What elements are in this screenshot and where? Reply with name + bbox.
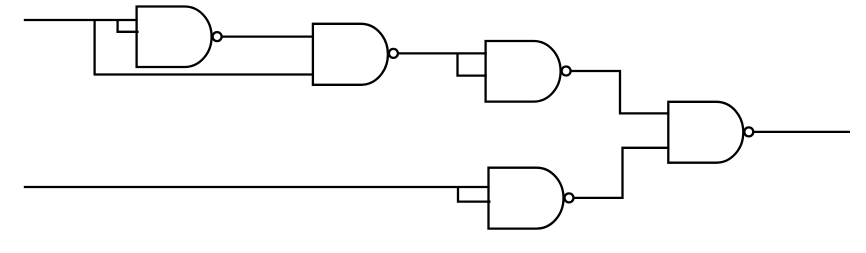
wire jog tying both inputs of U5 xyxy=(458,187,491,202)
wire input B horizontal xyxy=(24,186,490,188)
bubble U3 output xyxy=(562,67,571,76)
wire U4 output xyxy=(753,131,850,133)
bubble U4 output xyxy=(744,127,753,136)
wire U2 output to U3 xyxy=(398,52,487,54)
bubble U2 output xyxy=(389,49,398,58)
nand-gate U3 xyxy=(486,41,561,102)
wire jog tying both inputs of U3 xyxy=(458,53,487,75)
nand-gate U5 xyxy=(489,168,564,229)
wire feedback horizontal to U2 lower input xyxy=(94,73,314,75)
bubble U1 output xyxy=(213,32,222,41)
nand-gate U1 xyxy=(137,7,212,68)
nand-gate U2 xyxy=(313,24,388,85)
nand-gate U4 xyxy=(668,102,743,163)
wire jog tying both inputs of U1 xyxy=(118,20,139,32)
wire U5 output to U4 bottom input xyxy=(574,148,670,198)
bubble U5 output xyxy=(565,193,574,202)
wire input A horizontal xyxy=(24,19,138,21)
wire U1 output to U2 xyxy=(222,35,314,37)
wire U3 output to U4 top input xyxy=(571,71,670,113)
wire branch vertical from input A xyxy=(93,19,95,75)
